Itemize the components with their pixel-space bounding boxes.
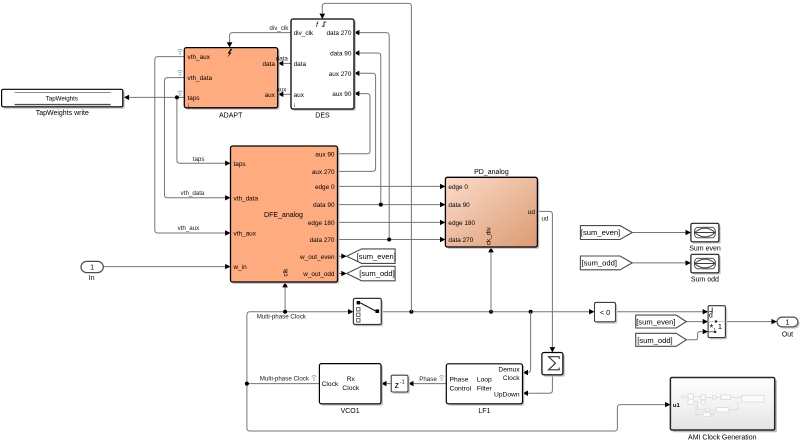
svg-text:edge 180: edge 180 xyxy=(308,220,335,227)
goto tag sum_odd xyxy=(347,266,395,281)
wire from sum_even to Sum even scope xyxy=(632,230,691,235)
wire data DES to ADAPT xyxy=(278,61,291,66)
index vector switch block xyxy=(353,298,383,326)
svg-text:In: In xyxy=(89,275,95,282)
svg-text:Control: Control xyxy=(450,385,472,392)
svg-text:ADAPT: ADAPT xyxy=(219,112,243,119)
svg-text:aux 270: aux 270 xyxy=(329,71,352,78)
svg-text:[sum_even]: [sum_even] xyxy=(581,228,620,237)
wire aux 270 DFE to DES xyxy=(338,71,376,172)
svg-text:d: d xyxy=(709,313,713,320)
inport In xyxy=(81,261,103,282)
svg-text:ud: ud xyxy=(542,215,549,222)
subsystem ADAPT xyxy=(184,48,279,120)
svg-text:vth_data: vth_data xyxy=(188,75,213,82)
signal logging badge vth_aux xyxy=(178,49,183,55)
wire edge 180 DFE to PD xyxy=(338,220,446,225)
svg-text:clk: clk xyxy=(282,268,289,277)
wire clock branch up to PD ck_div xyxy=(488,247,494,312)
svg-text:[sum_even]: [sum_even] xyxy=(357,252,396,261)
svg-text:vth_aux: vth_aux xyxy=(234,231,257,238)
wire clock branch up to DFE clk xyxy=(282,282,288,314)
subsystem PD_analog xyxy=(445,169,539,249)
wire aux DES to ADAPT xyxy=(278,92,291,97)
svg-text:1: 1 xyxy=(786,318,790,327)
svg-text:UpDown: UpDown xyxy=(494,392,520,399)
svg-text:w_in: w_in xyxy=(233,264,248,271)
svg-text:DFE_analog: DFE_analog xyxy=(264,212,303,219)
svg-text:vth_aux: vth_aux xyxy=(188,54,211,61)
svg-text:data 90: data 90 xyxy=(313,202,335,209)
svg-text:data 270: data 270 xyxy=(310,237,335,244)
svg-text:aux 270: aux 270 xyxy=(312,169,335,176)
subsystem DFE_analog xyxy=(231,146,340,284)
svg-text:vth_data: vth_data xyxy=(234,195,259,202)
svg-text:1: 1 xyxy=(90,263,94,272)
svg-text:taps: taps xyxy=(193,156,205,163)
compare to zero block xyxy=(595,302,618,323)
from tag sum_even right xyxy=(580,226,632,240)
svg-text:edge 180: edge 180 xyxy=(448,220,475,227)
svg-text:data: data xyxy=(276,56,289,63)
wire ud PD to Sum block xyxy=(537,211,555,352)
svg-text:data 90: data 90 xyxy=(448,202,470,209)
from tag sum_odd mid xyxy=(636,333,687,346)
from tag sum_odd right xyxy=(580,256,632,270)
svg-text:edge 0: edge 0 xyxy=(315,184,335,191)
svg-text:↓: ↓ xyxy=(293,102,296,109)
svg-text:TapWeights write: TapWeights write xyxy=(36,110,89,117)
svg-text:data 270: data 270 xyxy=(448,237,473,244)
wire data 90 DFE to PD and DES xyxy=(338,50,446,207)
sum Sigma block xyxy=(542,353,565,377)
svg-text:Out: Out xyxy=(782,331,793,338)
svg-text:data: data xyxy=(262,61,275,68)
wire Phase LF1 to unit delay xyxy=(408,376,446,386)
svg-text:AMI Clock Generation: AMI Clock Generation xyxy=(688,435,757,442)
signal name label data xyxy=(276,56,289,63)
svg-text:Phase: Phase xyxy=(419,376,437,383)
scope Sum odd xyxy=(691,254,721,283)
wire w_out_even to goto tag xyxy=(338,254,347,259)
signal logging badge vth_data xyxy=(178,70,183,76)
wire clock branch down to LF1 Demux Clock xyxy=(523,312,531,376)
wire vth_aux ADAPT to DFE xyxy=(155,57,231,236)
selector block xyxy=(708,306,727,340)
signal logging badge Multi-phase Clock xyxy=(312,376,317,382)
svg-text:taps: taps xyxy=(234,161,246,168)
svg-text:Filter: Filter xyxy=(477,385,493,392)
wire Sum block to LF1 UpDown xyxy=(523,375,553,396)
svg-text:ck_div: ck_div xyxy=(486,226,493,245)
wire In to DFE w_in xyxy=(103,264,230,269)
svg-text:edge 0: edge 0 xyxy=(448,184,468,191)
svg-text:Clock: Clock xyxy=(503,375,520,382)
svg-text:data 270: data 270 xyxy=(327,30,352,37)
wire switch output row to compare block with branches xyxy=(381,309,594,314)
svg-text:< 0: < 0 xyxy=(600,308,610,317)
wire taps ADAPT to TapWeights and DFE xyxy=(124,95,231,166)
svg-text:PD_analog: PD_analog xyxy=(474,169,509,176)
subsystem VCO1 xyxy=(319,364,382,416)
svg-text:Rx: Rx xyxy=(347,376,356,383)
svg-text:aux: aux xyxy=(294,92,305,99)
svg-text:[sum_even]: [sum_even] xyxy=(636,318,675,327)
from tag sum_even mid xyxy=(636,315,687,328)
signal logging badge taps xyxy=(178,91,183,97)
svg-text:aux 90: aux 90 xyxy=(315,151,335,158)
scope Sum even xyxy=(689,223,721,252)
svg-text:vth_aux: vth_aux xyxy=(178,225,201,232)
wire from sum_even tag to selector input 2 xyxy=(686,319,708,324)
wire unit delay to VCO1 xyxy=(381,381,391,386)
wire edge 0 DFE to PD xyxy=(338,184,446,189)
svg-text:u1: u1 xyxy=(673,403,681,409)
svg-text:Multi-phase Clock: Multi-phase Clock xyxy=(257,314,307,321)
svg-text:data: data xyxy=(294,61,307,68)
svg-text:-1: -1 xyxy=(400,380,405,386)
svg-text:Clock: Clock xyxy=(322,381,339,388)
svg-text:Demux: Demux xyxy=(498,367,520,374)
outport Out xyxy=(777,317,800,338)
svg-text:VCO1: VCO1 xyxy=(341,408,360,415)
svg-text:data 90: data 90 xyxy=(330,51,352,58)
svg-text:ud: ud xyxy=(528,209,536,216)
svg-text:w_out_even: w_out_even xyxy=(299,254,335,261)
svg-text:[sum_odd]: [sum_odd] xyxy=(359,269,394,278)
svg-text:Sum even: Sum even xyxy=(689,245,721,252)
wire aux 90 DFE to DES xyxy=(338,91,371,154)
wire selector to Out port xyxy=(725,319,777,324)
svg-text:vth_data: vth_data xyxy=(181,190,205,197)
data store write TapWeights xyxy=(2,89,125,117)
svg-text:Clock: Clock xyxy=(342,385,359,392)
unit delay block xyxy=(391,375,410,394)
wire from sum_odd tag to selector input 3 xyxy=(686,329,708,340)
wire clock branch up to DES trigger xyxy=(320,3,412,311)
wire from sum_odd to Sum odd scope xyxy=(632,260,691,265)
svg-text:Loop: Loop xyxy=(477,376,492,383)
wire w_out_odd to goto tag xyxy=(338,271,347,276)
subsystem LF1 xyxy=(446,364,524,415)
svg-text:Multi-phase Clock: Multi-phase Clock xyxy=(260,375,310,382)
wire div_clk DES to ADAPT trigger xyxy=(227,25,291,48)
svg-text:aux: aux xyxy=(276,87,287,94)
svg-text:,: , xyxy=(714,324,716,331)
svg-text:aux: aux xyxy=(265,92,276,99)
svg-text:z: z xyxy=(395,380,399,390)
svg-text:1: 1 xyxy=(718,322,722,331)
svg-text:Phase: Phase xyxy=(450,376,469,383)
subsystem AMI Clock Generation xyxy=(670,378,776,442)
wire Multi-phase Clock net VCO1 out to switch and AMI xyxy=(245,309,671,431)
svg-text:div_clk: div_clk xyxy=(294,30,314,37)
svg-text:LF1: LF1 xyxy=(478,408,490,415)
signal logging badge Phase xyxy=(439,376,444,382)
wire data 270 DFE to PD and DES xyxy=(338,30,446,242)
svg-text:w_out_odd: w_out_odd xyxy=(302,271,335,278)
svg-text:↓: ↓ xyxy=(187,101,190,108)
goto tag sum_even xyxy=(347,249,396,264)
svg-text:aux 90: aux 90 xyxy=(332,91,352,98)
svg-text:TapWeights: TapWeights xyxy=(46,95,78,102)
svg-text:Sum odd: Sum odd xyxy=(691,276,719,283)
svg-text:DES: DES xyxy=(315,112,330,119)
svg-text:[sum_odd]: [sum_odd] xyxy=(582,259,617,268)
wire compare to selector input 1 xyxy=(616,309,709,314)
subsystem DES xyxy=(291,19,356,119)
svg-text:div_clk: div_clk xyxy=(269,25,289,32)
signal name label aux xyxy=(276,87,287,94)
svg-text:[sum_odd]: [sum_odd] xyxy=(637,336,672,345)
wire vth_data ADAPT to DFE xyxy=(165,78,231,201)
